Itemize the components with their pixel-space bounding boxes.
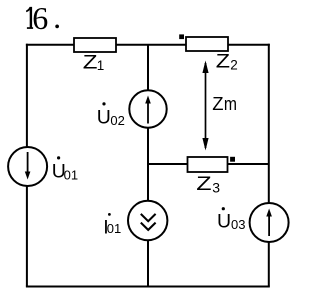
svg-text:3: 3 <box>212 179 220 195</box>
svg-text:6: 6 <box>32 0 48 36</box>
svg-text:Z: Z <box>83 51 98 73</box>
svg-text:Z: Z <box>212 93 223 114</box>
svg-text:U: U <box>217 210 231 232</box>
svg-text:2: 2 <box>230 58 238 73</box>
svg-text:02: 02 <box>110 113 124 128</box>
svg-text:Z: Z <box>216 51 230 72</box>
svg-text:m: m <box>224 93 237 115</box>
svg-text:1: 1 <box>97 58 105 73</box>
svg-text:U: U <box>97 107 111 129</box>
svg-text:03: 03 <box>231 217 245 232</box>
svg-text:Z: Z <box>196 173 211 194</box>
svg-text:.: . <box>53 0 61 35</box>
svg-text:01: 01 <box>64 168 78 183</box>
svg-text:01: 01 <box>107 221 121 236</box>
